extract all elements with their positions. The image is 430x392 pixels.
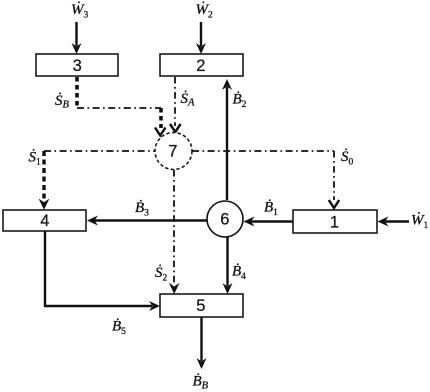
entropy flow S2 (169, 170, 180, 294)
block 5 (160, 294, 243, 317)
label BB (193, 374, 209, 392)
label W3 (71, 1, 89, 21)
label SA (181, 90, 196, 109)
label B1 (264, 200, 278, 219)
exergy flow B5 (45, 231, 160, 311)
label W1 (411, 212, 429, 232)
svg-text:3: 3 (73, 57, 82, 75)
work arrow W2 (196, 22, 206, 54)
block 1 (293, 210, 377, 233)
label S0 (341, 148, 354, 168)
label S2 (155, 264, 168, 284)
label B5 (112, 319, 126, 338)
exergy flow B4 (223, 237, 233, 294)
work arrow W3 (72, 22, 82, 54)
exergy flow B2 (222, 79, 232, 200)
svg-text:5: 5 (196, 297, 205, 315)
block 2 (160, 54, 243, 76)
label B4 (232, 264, 246, 283)
entropy flow SB (77, 77, 166, 136)
svg-text:6: 6 (220, 211, 229, 229)
junction circle 6 (207, 201, 243, 237)
block 3 (36, 54, 118, 76)
svg-text:4: 4 (40, 212, 49, 230)
label B3 (135, 200, 149, 219)
label SB (55, 92, 70, 111)
entropy flow SA (170, 77, 181, 132)
exergy flow BB (197, 317, 207, 369)
entropy flow S0 (192, 151, 339, 208)
label S1 (29, 149, 42, 168)
exergy flow B3 (87, 216, 207, 226)
svg-text:1: 1 (330, 214, 339, 232)
exergy flow B1 (244, 217, 294, 227)
svg-text:7: 7 (168, 142, 177, 160)
junction circle 7 (155, 133, 192, 170)
label B2 (233, 92, 247, 111)
svg-text:2: 2 (196, 57, 205, 75)
block 4 (3, 210, 86, 231)
label W2 (196, 1, 214, 21)
entropy flow S1 (39, 151, 155, 210)
work arrow W1 (378, 217, 410, 227)
